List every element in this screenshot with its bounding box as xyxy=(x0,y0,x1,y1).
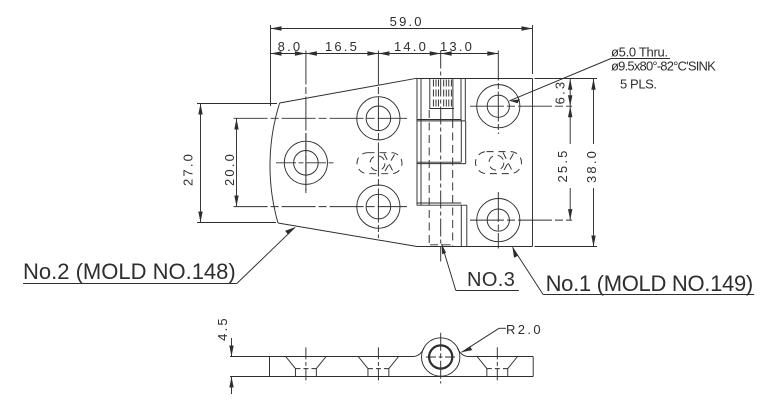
hidden slot left xyxy=(357,153,402,174)
bottom view pin boss xyxy=(414,333,468,384)
dimension 20.0 xyxy=(234,118,407,206)
dimension 6.3 xyxy=(568,79,572,106)
countersink note leader xyxy=(510,59,671,104)
svg-text:No.2 (MOLD NO.148): No.2 (MOLD NO.148) xyxy=(23,259,236,284)
svg-text:8.0: 8.0 xyxy=(278,39,303,54)
knuckle interlock steps xyxy=(417,78,467,247)
svg-text:27.0: 27.0 xyxy=(181,152,196,186)
hinge pin centerline xyxy=(440,51,442,262)
dimension 25.5 xyxy=(568,106,572,220)
svg-text:R2.0: R2.0 xyxy=(506,322,543,337)
dimension 38.0 xyxy=(591,79,595,247)
svg-text:16.5: 16.5 xyxy=(325,39,359,54)
bottom view countersink C xyxy=(358,347,398,383)
hole C bottom xyxy=(357,185,400,228)
svg-text:59.0: 59.0 xyxy=(390,14,424,29)
hole B (left plate center) xyxy=(276,133,336,193)
left plate No.2 outline xyxy=(270,78,421,246)
svg-text:ø9.5x80°-82°C'SINK: ø9.5x80°-82°C'SINK xyxy=(611,59,716,74)
svg-text:14.0: 14.0 xyxy=(394,39,428,54)
svg-text:4.5: 4.5 xyxy=(215,316,230,341)
hole C top xyxy=(357,97,400,140)
hidden pin bore dashed lines xyxy=(429,110,453,246)
svg-text:6.3: 6.3 xyxy=(552,80,567,105)
label No.2 leader xyxy=(23,227,295,283)
dimension 4.5 xyxy=(229,338,269,394)
dimension row 8.0 / 16.5 / 14.0 / 13.0 xyxy=(271,51,499,55)
dimension 59.0 xyxy=(271,25,533,106)
svg-text:5 PLS.: 5 PLS. xyxy=(620,77,657,92)
bottom view countersink B xyxy=(286,347,326,383)
svg-text:ø5.0 Thru.: ø5.0 Thru. xyxy=(611,45,668,60)
extension line col E upper xyxy=(497,51,499,135)
svg-text:25.5: 25.5 xyxy=(555,148,570,182)
right plate No.1 outline xyxy=(417,79,533,247)
hidden slot right xyxy=(476,152,522,174)
extension line col E lower xyxy=(497,192,499,249)
label NO.3 leader xyxy=(442,244,519,291)
dimension 27.0 xyxy=(197,104,277,223)
label R2.0 leader xyxy=(462,328,507,352)
knuckle knurled pin section xyxy=(429,78,454,119)
hole E bottom xyxy=(477,199,520,242)
svg-text:38.0: 38.0 xyxy=(584,149,599,183)
right side extension lines xyxy=(470,79,597,247)
label No.1 leader xyxy=(513,247,755,294)
bottom view countersink E xyxy=(477,347,517,383)
hole E top xyxy=(477,85,520,128)
extension line col C xyxy=(377,51,379,239)
svg-text:13.0: 13.0 xyxy=(440,39,474,54)
svg-text:NO.3: NO.3 xyxy=(467,269,515,291)
bottom view bar outline xyxy=(270,357,534,377)
extension line col B xyxy=(305,51,307,194)
svg-text:20.0: 20.0 xyxy=(222,152,237,186)
svg-text:No.1 (MOLD NO.149): No.1 (MOLD NO.149) xyxy=(546,271,753,296)
